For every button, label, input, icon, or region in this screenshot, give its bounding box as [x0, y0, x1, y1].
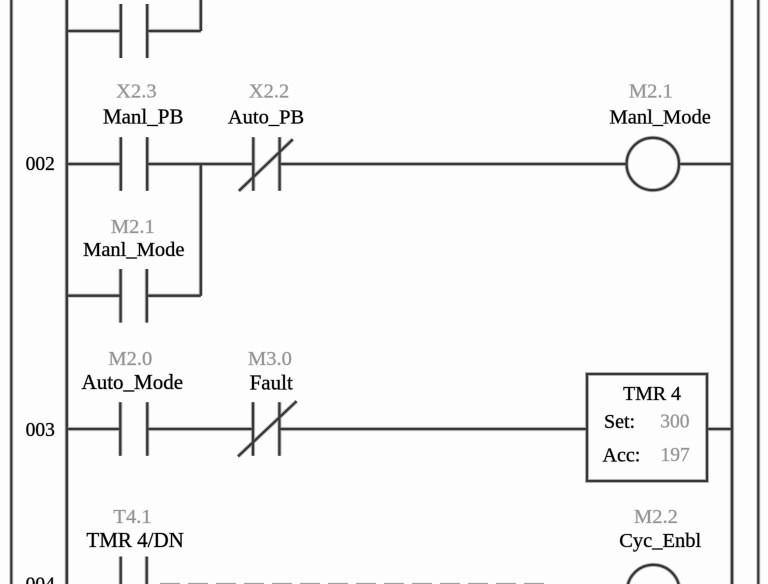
- svg-text:X2.3: X2.3: [116, 80, 156, 102]
- svg-text:Set:: Set:: [604, 411, 635, 433]
- svg-text:Auto_PB: Auto_PB: [228, 106, 304, 128]
- svg-text:M3.0: M3.0: [248, 348, 292, 370]
- svg-text:M2.2: M2.2: [634, 506, 678, 528]
- svg-text:003: 003: [26, 420, 55, 441]
- svg-text:002: 002: [26, 154, 55, 175]
- svg-text:004: 004: [26, 575, 56, 584]
- svg-text:TMR 4: TMR 4: [623, 383, 681, 405]
- svg-text:Manl_Mode: Manl_Mode: [610, 106, 711, 128]
- svg-text:M2.1: M2.1: [111, 216, 155, 238]
- svg-text:Fault: Fault: [250, 371, 293, 395]
- svg-text:300: 300: [660, 412, 689, 433]
- svg-text:M2.1: M2.1: [629, 80, 673, 102]
- svg-text:Manl_Mode: Manl_Mode: [83, 239, 184, 261]
- svg-text:M2.0: M2.0: [108, 348, 152, 370]
- svg-text:T4.1: T4.1: [113, 506, 151, 528]
- svg-text:Acc:: Acc:: [603, 444, 641, 466]
- svg-text:Cyc_Enbl: Cyc_Enbl: [619, 530, 701, 552]
- svg-text:Auto_Mode: Auto_Mode: [82, 370, 184, 394]
- svg-text:TMR 4/DN: TMR 4/DN: [86, 528, 183, 552]
- svg-text:197: 197: [661, 445, 691, 466]
- svg-text:Manl_PB: Manl_PB: [103, 105, 184, 129]
- svg-text:X2.2: X2.2: [249, 80, 289, 102]
